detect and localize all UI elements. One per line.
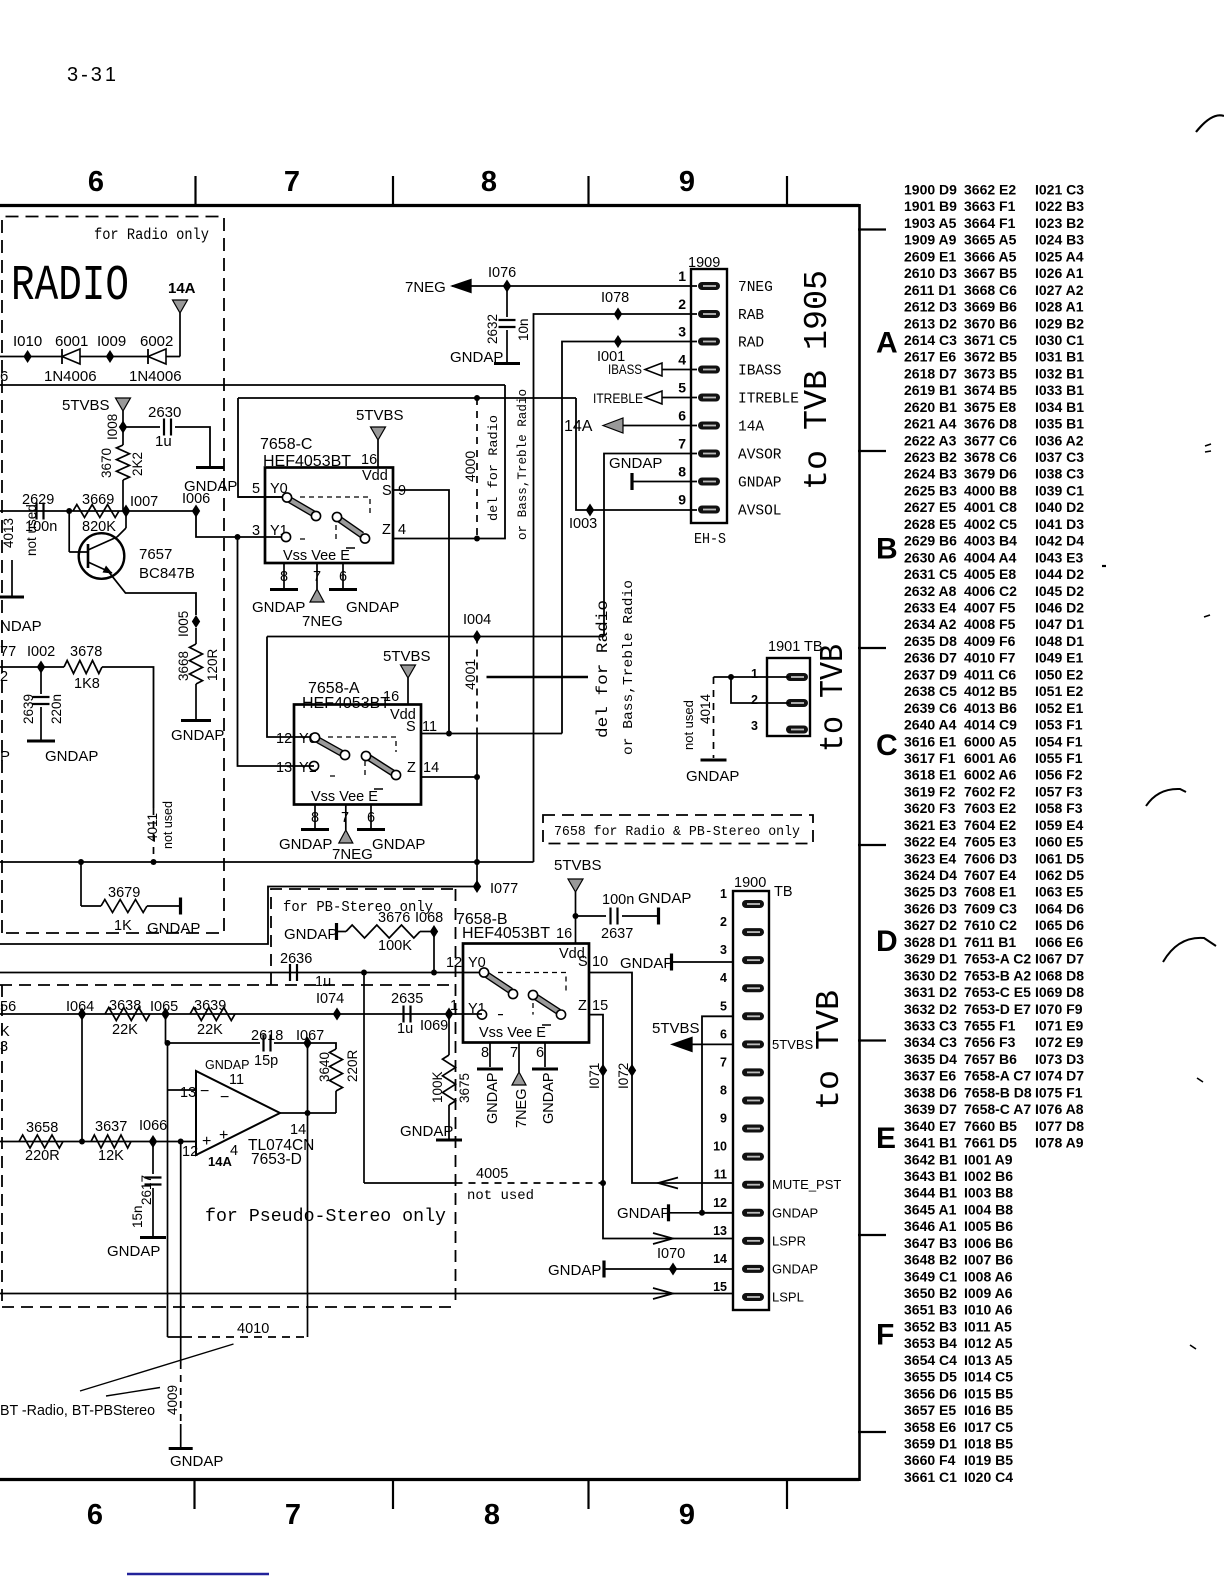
wire long horizontal y=385 bbox=[0, 384, 505, 386]
svg-text:7653-D E7: 7653-D E7 bbox=[964, 1001, 1031, 1017]
svg-text:3643 B1: 3643 B1 bbox=[904, 1168, 957, 1184]
svg-text:GNDAP: GNDAP bbox=[617, 1205, 670, 1222]
svg-text:2618: 2618 bbox=[251, 1028, 283, 1044]
svg-text:6: 6 bbox=[339, 569, 347, 585]
svg-text:1: 1 bbox=[720, 887, 727, 901]
svg-text:7606 D3: 7606 D3 bbox=[964, 850, 1017, 866]
svg-text:3677 C6: 3677 C6 bbox=[964, 432, 1017, 448]
wire S10 to MUTE net bbox=[589, 973, 733, 1184]
svg-text:7656 F3: 7656 F3 bbox=[964, 1034, 1016, 1050]
svg-text:8: 8 bbox=[678, 464, 686, 480]
pin 7 7658-A to 7NEG bbox=[345, 805, 347, 831]
svg-text:I003: I003 bbox=[569, 516, 597, 532]
svg-text:3658: 3658 bbox=[26, 1120, 58, 1136]
top ruler tick 9/end bbox=[786, 176, 788, 205]
svg-text:12: 12 bbox=[276, 731, 292, 747]
svg-text:I010 A6: I010 A6 bbox=[964, 1302, 1013, 1318]
svg-text:7653-D: 7653-D bbox=[251, 1151, 302, 1168]
svg-text:1N4006: 1N4006 bbox=[129, 368, 182, 385]
svg-text:I003 B8: I003 B8 bbox=[964, 1185, 1013, 1201]
svg-text:I072: I072 bbox=[616, 1063, 631, 1089]
svg-text:4014 C9: 4014 C9 bbox=[964, 717, 1017, 733]
wire 5 Y0 7658-C from ITREBLE net bbox=[238, 496, 286, 498]
dashed box for Radio only bbox=[2, 217, 224, 934]
dashed note box 7658 for Radio and PB-Stereo only bbox=[543, 815, 813, 844]
svg-text:7NEG: 7NEG bbox=[405, 279, 446, 296]
svg-text:I065 D6: I065 D6 bbox=[1035, 917, 1084, 933]
svg-text:or Bass,Treble Radio: or Bass,Treble Radio bbox=[515, 389, 530, 540]
svg-text:4003 B4: 4003 B4 bbox=[964, 533, 1017, 549]
svg-text:2634 A2: 2634 A2 bbox=[904, 616, 957, 632]
svg-text:4: 4 bbox=[678, 352, 686, 368]
svg-text:9: 9 bbox=[678, 492, 686, 508]
svg-text:I024 B3: I024 B3 bbox=[1035, 232, 1084, 248]
svg-text:2630: 2630 bbox=[148, 404, 181, 421]
svg-text:12: 12 bbox=[713, 1196, 727, 1210]
svg-text:4004 A4: 4004 A4 bbox=[964, 549, 1017, 565]
svg-text:I031 B1: I031 B1 bbox=[1035, 349, 1084, 365]
svg-text:for PB-Stereo only: for PB-Stereo only bbox=[283, 900, 433, 916]
svg-text:+: + bbox=[202, 1133, 211, 1150]
svg-text:7: 7 bbox=[720, 1055, 727, 1069]
top border ruler line bbox=[0, 204, 859, 207]
svg-text:10n: 10n bbox=[516, 318, 531, 341]
svg-text:GNDAP: GNDAP bbox=[252, 599, 305, 616]
svg-text:12: 12 bbox=[182, 1144, 198, 1160]
svg-text:8: 8 bbox=[311, 810, 319, 826]
wire pin5 1900 to GNDAP bus bbox=[702, 1016, 733, 1213]
svg-text:4013: 4013 bbox=[1, 518, 16, 548]
svg-text:3621 E3: 3621 E3 bbox=[904, 817, 956, 833]
svg-text:AVSOR: AVSOR bbox=[738, 448, 782, 464]
svg-text:I071 E9: I071 E9 bbox=[1035, 1018, 1083, 1034]
svg-text:2632 A8: 2632 A8 bbox=[904, 583, 957, 599]
component location list bbox=[904, 182, 1084, 1485]
svg-text:9: 9 bbox=[679, 166, 695, 198]
component 4011 not used (dashed) bbox=[153, 808, 155, 862]
svg-text:2621 A4: 2621 A4 bbox=[904, 416, 957, 432]
svg-text:I032 B1: I032 B1 bbox=[1035, 365, 1084, 381]
wire emitter to 3668 bbox=[108, 571, 196, 615]
svg-text:4010: 4010 bbox=[237, 1321, 269, 1337]
svg-text:I064 D6: I064 D6 bbox=[1035, 901, 1084, 917]
wire opamp minus input bbox=[168, 1089, 197, 1091]
svg-text:3657 E5: 3657 E5 bbox=[904, 1402, 956, 1418]
node I002 bbox=[37, 661, 45, 674]
junction Z14 on 477 bbox=[474, 774, 480, 780]
resistor 3668 120R bbox=[195, 628, 197, 644]
svg-text:7NEG: 7NEG bbox=[738, 280, 773, 296]
svg-text:4002 C5: 4002 C5 bbox=[964, 516, 1017, 532]
svg-text:2: 2 bbox=[751, 693, 758, 707]
svg-text:14: 14 bbox=[713, 1252, 727, 1266]
wire I006 down to Y1 line bbox=[196, 511, 286, 537]
capacitor 2617 15n to ground bbox=[152, 1142, 154, 1175]
svg-text:3668 C6: 3668 C6 bbox=[964, 282, 1017, 298]
svg-text:I004 B8: I004 B8 bbox=[964, 1201, 1013, 1217]
svg-text:I023 B2: I023 B2 bbox=[1035, 215, 1084, 231]
svg-text:7603 E2: 7603 E2 bbox=[964, 800, 1016, 816]
svg-text:2637: 2637 bbox=[601, 926, 633, 942]
svg-text:S: S bbox=[578, 954, 588, 970]
svg-text:1u: 1u bbox=[315, 974, 331, 990]
svg-text:GNDAP: GNDAP bbox=[400, 1123, 453, 1140]
ground GNDAP 2630 bbox=[196, 466, 224, 469]
svg-text:4007 F5: 4007 F5 bbox=[964, 600, 1016, 616]
svg-text:I042 D4: I042 D4 bbox=[1035, 533, 1084, 549]
svg-text:8: 8 bbox=[720, 1083, 727, 1097]
svg-text:3676 D8: 3676 D8 bbox=[964, 416, 1017, 432]
svg-text:220R: 220R bbox=[25, 1148, 60, 1164]
wire ITREBLE to AVSOL pin9 bbox=[576, 398, 697, 510]
svg-text:12K: 12K bbox=[98, 1148, 124, 1164]
svg-text:2: 2 bbox=[720, 915, 727, 929]
svg-text:GNDAP: GNDAP bbox=[772, 1205, 818, 1220]
svg-text:6000 A5: 6000 A5 bbox=[964, 733, 1017, 749]
svg-text:5TVBS: 5TVBS bbox=[772, 1037, 814, 1052]
svg-text:I049 E1: I049 E1 bbox=[1035, 650, 1083, 666]
svg-text:I059 E4: I059 E4 bbox=[1035, 817, 1083, 833]
svg-text:2: 2 bbox=[678, 296, 686, 312]
svg-text:I055 F1: I055 F1 bbox=[1035, 750, 1083, 766]
svg-text:3642 B1: 3642 B1 bbox=[904, 1151, 957, 1167]
svg-text:2610 D3: 2610 D3 bbox=[904, 265, 957, 281]
svg-text:1900: 1900 bbox=[734, 875, 766, 891]
svg-text:GNDAP: GNDAP bbox=[171, 727, 224, 744]
component 4000 dashed del for Radio bbox=[476, 398, 478, 539]
svg-text:GNDAP: GNDAP bbox=[205, 1058, 249, 1072]
svg-text:I016 B5: I016 B5 bbox=[964, 1402, 1013, 1418]
svg-text:3675: 3675 bbox=[457, 1073, 472, 1103]
wire I067 down to output and 4010 bbox=[307, 1043, 309, 1337]
svg-text:GNDAP: GNDAP bbox=[107, 1243, 160, 1260]
svg-text:7607 E4: 7607 E4 bbox=[964, 867, 1016, 883]
svg-text:I013 A5: I013 A5 bbox=[964, 1352, 1013, 1368]
svg-text:I076: I076 bbox=[488, 265, 516, 281]
svg-text:9: 9 bbox=[398, 483, 406, 499]
scan artifact tick 1 bbox=[1205, 444, 1211, 446]
callout leader line to 4010 bbox=[80, 1344, 234, 1391]
scan artifact dot bbox=[1102, 565, 1106, 567]
svg-text:14A: 14A bbox=[564, 418, 593, 435]
svg-text:56: 56 bbox=[0, 999, 16, 1015]
svg-text:3656 D6: 3656 D6 bbox=[904, 1385, 957, 1401]
ground GNDAP 2632 bbox=[494, 362, 520, 365]
svg-text:GNDAP: GNDAP bbox=[548, 1262, 601, 1279]
svg-text:6001 A6: 6001 A6 bbox=[964, 750, 1017, 766]
svg-text:3649 C1: 3649 C1 bbox=[904, 1268, 957, 1284]
svg-text:1900 D9: 1900 D9 bbox=[904, 182, 957, 198]
svg-text:3630 D2: 3630 D2 bbox=[904, 967, 957, 983]
svg-text:3637: 3637 bbox=[95, 1119, 127, 1135]
svg-text:22K: 22K bbox=[197, 1022, 223, 1038]
resistor 3679 1K bbox=[80, 862, 82, 906]
wire I004 line y=636 to AVSOR bbox=[267, 636, 604, 638]
svg-text:8: 8 bbox=[280, 569, 288, 585]
svg-text:8: 8 bbox=[484, 1499, 500, 1531]
svg-text:3626 D3: 3626 D3 bbox=[904, 901, 957, 917]
wire 1901 pins 1-2 jumper bbox=[714, 676, 732, 678]
svg-text:3640 E7: 3640 E7 bbox=[904, 1118, 956, 1134]
svg-text:I007: I007 bbox=[130, 494, 158, 510]
svg-text:GNDAP: GNDAP bbox=[485, 1072, 501, 1124]
svg-text:RAB: RAB bbox=[738, 308, 764, 324]
svg-text:C: C bbox=[876, 729, 898, 762]
svg-text:15: 15 bbox=[592, 998, 608, 1014]
resistor 3670 2K2 bbox=[122, 427, 124, 445]
svg-text:3639 D7: 3639 D7 bbox=[904, 1101, 957, 1117]
svg-text:I068 D8: I068 D8 bbox=[1035, 967, 1084, 983]
svg-text:4008 F5: 4008 F5 bbox=[964, 616, 1016, 632]
svg-text:I048 D1: I048 D1 bbox=[1035, 633, 1084, 649]
svg-text:GNDAP: GNDAP bbox=[372, 836, 425, 853]
wire 4005 branch vertical bbox=[363, 973, 365, 1184]
svg-text:I074 D7: I074 D7 bbox=[1035, 1068, 1084, 1084]
svg-text:3672 B5: 3672 B5 bbox=[964, 349, 1017, 365]
ground GNDAP 3668 bbox=[181, 719, 211, 722]
svg-text:7: 7 bbox=[341, 810, 349, 826]
svg-text:1u: 1u bbox=[397, 1021, 413, 1037]
svg-text:E: E bbox=[876, 1122, 896, 1155]
svg-text:12: 12 bbox=[446, 955, 462, 971]
svg-text:P: P bbox=[0, 748, 10, 765]
svg-text:I053 F1: I053 F1 bbox=[1035, 717, 1083, 733]
svg-text:4000: 4000 bbox=[462, 451, 478, 482]
svg-text:10: 10 bbox=[592, 954, 608, 970]
svg-text:6: 6 bbox=[0, 368, 8, 385]
svg-text:7605 E3: 7605 E3 bbox=[964, 834, 1016, 850]
svg-text:GNDAP: GNDAP bbox=[170, 1453, 223, 1470]
svg-text:3627 D2: 3627 D2 bbox=[904, 917, 957, 933]
svg-text:I070: I070 bbox=[657, 1246, 685, 1262]
svg-text:3675 E8: 3675 E8 bbox=[964, 399, 1016, 415]
svg-text:A: A bbox=[876, 327, 898, 360]
svg-text:I029 B2: I029 B2 bbox=[1035, 315, 1084, 331]
resistor 3640 220R bbox=[308, 1043, 337, 1049]
svg-text:IBASS: IBASS bbox=[608, 362, 642, 377]
svg-text:to TVB 1905: to TVB 1905 bbox=[799, 270, 836, 490]
svg-text:EH-S: EH-S bbox=[694, 531, 726, 548]
svg-text:6: 6 bbox=[536, 1045, 544, 1061]
svg-text:2613 D2: 2613 D2 bbox=[904, 315, 957, 331]
wire 2630 to ground bbox=[175, 427, 210, 466]
svg-text:14A: 14A bbox=[208, 1154, 232, 1169]
pin 8 7658-B to ground bbox=[489, 1043, 491, 1068]
svg-text:1903 A5: 1903 A5 bbox=[904, 215, 957, 231]
svg-text:5TVBS: 5TVBS bbox=[62, 397, 110, 414]
right frame tick 5 bbox=[858, 1039, 886, 1041]
svg-text:2639 C6: 2639 C6 bbox=[904, 700, 957, 716]
svg-text:Vss Vee E: Vss Vee E bbox=[311, 789, 378, 805]
unknown segment y=677 bbox=[487, 676, 589, 679]
svg-text:13: 13 bbox=[180, 1085, 196, 1101]
svg-text:I004: I004 bbox=[463, 612, 491, 628]
wire Z15 to LSPR bbox=[589, 1015, 733, 1239]
scan artifact tick 2 bbox=[1204, 615, 1210, 617]
svg-text:3667 B5: 3667 B5 bbox=[964, 265, 1017, 281]
wire long horizontal y=862 (RAB net) bbox=[0, 861, 534, 863]
svg-text:3673 B5: 3673 B5 bbox=[964, 365, 1017, 381]
svg-text:3670: 3670 bbox=[99, 448, 114, 478]
right frame tick 7 bbox=[858, 1431, 886, 1433]
bottom border ruler line bbox=[0, 1478, 859, 1481]
svg-text:2619 B1: 2619 B1 bbox=[904, 382, 957, 398]
svg-text:7658 for Radio & PB-Stereo onl: 7658 for Radio & PB-Stereo only bbox=[554, 824, 800, 840]
svg-text:7658-B D8: 7658-B D8 bbox=[964, 1084, 1032, 1100]
svg-text:3655 D5: 3655 D5 bbox=[904, 1369, 957, 1385]
svg-text:4001 C8: 4001 C8 bbox=[964, 499, 1017, 515]
svg-text:I051 E2: I051 E2 bbox=[1035, 683, 1083, 699]
svg-text:2617: 2617 bbox=[139, 1175, 154, 1205]
svg-text:I017 C5: I017 C5 bbox=[964, 1419, 1013, 1435]
svg-text:I036 A2: I036 A2 bbox=[1035, 432, 1084, 448]
switch symbol 7658-B bbox=[498, 973, 566, 1015]
svg-text:I070 F9: I070 F9 bbox=[1035, 1001, 1083, 1017]
bottom ruler tick 6/7 bbox=[193, 1480, 195, 1509]
svg-text:GNDAP: GNDAP bbox=[541, 1072, 557, 1124]
wire S9 7658-C to control net bbox=[393, 490, 449, 734]
svg-text:2618 D7: 2618 D7 bbox=[904, 365, 957, 381]
svg-text:10: 10 bbox=[713, 1140, 727, 1154]
wire antenna to diode row bbox=[179, 313, 181, 357]
svg-text:4009 F6: 4009 F6 bbox=[964, 633, 1016, 649]
svg-text:GNDAP: GNDAP bbox=[638, 890, 691, 907]
right frame tick 1 bbox=[858, 228, 886, 230]
svg-text:4000 B8: 4000 B8 bbox=[964, 483, 1017, 499]
svg-text:I033 B1: I033 B1 bbox=[1035, 382, 1084, 398]
svg-text:I052 E1: I052 E1 bbox=[1035, 700, 1083, 716]
svg-text:I039 C1: I039 C1 bbox=[1035, 483, 1084, 499]
svg-text:3678 C6: 3678 C6 bbox=[964, 449, 1017, 465]
svg-text:7NEG: 7NEG bbox=[332, 846, 373, 863]
wire Y1 7658-A from I006 net bbox=[238, 537, 315, 766]
pin 7 7658-B to 7NEG bbox=[518, 1043, 520, 1073]
svg-text:I020 C4: I020 C4 bbox=[964, 1469, 1013, 1485]
svg-text:3618 E1: 3618 E1 bbox=[904, 767, 956, 783]
wire Y0 7658-A from corner bbox=[267, 637, 314, 738]
component 4010 dashed box bottom bbox=[168, 1336, 185, 1338]
svg-text:7610 C2: 7610 C2 bbox=[964, 917, 1017, 933]
svg-text:Vss Vee E: Vss Vee E bbox=[479, 1025, 546, 1041]
svg-text:I078 A9: I078 A9 bbox=[1035, 1135, 1084, 1151]
svg-text:3679 D6: 3679 D6 bbox=[964, 466, 1017, 482]
svg-text:3623 E4: 3623 E4 bbox=[904, 850, 956, 866]
svg-text:3669: 3669 bbox=[82, 492, 114, 508]
svg-text:I060 E5: I060 E5 bbox=[1035, 834, 1083, 850]
svg-text:14: 14 bbox=[423, 760, 439, 776]
svg-text:1: 1 bbox=[678, 268, 686, 284]
svg-text:3650 B2: 3650 B2 bbox=[904, 1285, 957, 1301]
svg-text:7661 D5: 7661 D5 bbox=[964, 1135, 1017, 1151]
junction 4000 bottom bbox=[474, 536, 480, 542]
wire RAD from pin3 bbox=[562, 342, 697, 734]
svg-text:3670 B6: 3670 B6 bbox=[964, 315, 1017, 331]
svg-text:1909 A9: 1909 A9 bbox=[904, 232, 957, 248]
svg-text:3648 B2: 3648 B2 bbox=[904, 1252, 957, 1268]
svg-text:S: S bbox=[406, 719, 416, 735]
svg-text:7602 F2: 7602 F2 bbox=[964, 783, 1016, 799]
svg-text:3624 D4: 3624 D4 bbox=[904, 867, 957, 883]
svg-text:9: 9 bbox=[720, 1112, 727, 1126]
arrow on MUTE_PST line bbox=[658, 1178, 678, 1189]
svg-text:or Bass,Treble Radio: or Bass,Treble Radio bbox=[621, 580, 637, 755]
component 4009 dashed to ground bbox=[180, 1362, 182, 1424]
svg-text:Vdd: Vdd bbox=[362, 468, 388, 484]
svg-text:7609 C3: 7609 C3 bbox=[964, 901, 1017, 917]
svg-text:3669 B6: 3669 B6 bbox=[964, 299, 1017, 315]
wire 3678 row bbox=[0, 666, 64, 668]
svg-text:I011 A5: I011 A5 bbox=[964, 1319, 1012, 1335]
svg-text:3633 C3: 3633 C3 bbox=[904, 1018, 957, 1034]
svg-text:14A: 14A bbox=[168, 280, 196, 297]
svg-text:I058 F3: I058 F3 bbox=[1035, 800, 1083, 816]
svg-text:I028 A1: I028 A1 bbox=[1035, 299, 1084, 315]
svg-text:I056 F2: I056 F2 bbox=[1035, 767, 1083, 783]
wire opamp plus input row y=1141.5 bbox=[0, 1141, 196, 1143]
svg-text:for Pseudo-Stereo only: for Pseudo-Stereo only bbox=[205, 1207, 446, 1227]
svg-text:I041 D3: I041 D3 bbox=[1035, 516, 1084, 532]
svg-text:2611 D1: 2611 D1 bbox=[904, 282, 956, 298]
svg-text:I057 F3: I057 F3 bbox=[1035, 783, 1083, 799]
svg-text:3634 C3: 3634 C3 bbox=[904, 1034, 957, 1050]
svg-text:15: 15 bbox=[713, 1280, 727, 1294]
junction S9 on control line bbox=[446, 731, 452, 737]
svg-text:I071: I071 bbox=[587, 1063, 602, 1089]
svg-text:3652 B3: 3652 B3 bbox=[904, 1319, 957, 1335]
svg-text:I022 B3: I022 B3 bbox=[1035, 198, 1084, 214]
svg-text:I078: I078 bbox=[601, 290, 629, 306]
svg-text:7611 B1: 7611 B1 bbox=[964, 934, 1016, 950]
svg-text:I009 A6: I009 A6 bbox=[964, 1285, 1013, 1301]
svg-text:I043 E3: I043 E3 bbox=[1035, 549, 1083, 565]
svg-text:GNDAP: GNDAP bbox=[738, 476, 782, 492]
svg-text:15n: 15n bbox=[130, 1205, 145, 1228]
svg-text:7608 E1: 7608 E1 bbox=[964, 884, 1016, 900]
dashed box for PB-Stereo only bbox=[271, 889, 453, 985]
svg-text:2627 E5: 2627 E5 bbox=[904, 499, 956, 515]
svg-text:2631 C5: 2631 C5 bbox=[904, 566, 957, 582]
top ruler tick 8/9 bbox=[587, 176, 589, 205]
svg-text:F: F bbox=[876, 1319, 894, 1352]
wire Y1 line 7658-B y=1014 bbox=[0, 1013, 482, 1015]
svg-text:3640: 3640 bbox=[317, 1052, 332, 1082]
svg-text:4012 B5: 4012 B5 bbox=[964, 683, 1017, 699]
svg-text:3644 B1: 3644 B1 bbox=[904, 1185, 957, 1201]
svg-text:6: 6 bbox=[367, 810, 375, 826]
wire input row y=511 bbox=[0, 510, 126, 512]
svg-text:GNDAP: GNDAP bbox=[284, 926, 337, 943]
svg-text:120R: 120R bbox=[205, 648, 220, 681]
wire control S line y=733.5 bbox=[421, 733, 562, 735]
svg-text:1K8: 1K8 bbox=[74, 676, 100, 692]
svg-text:I002 B6: I002 B6 bbox=[964, 1168, 1013, 1184]
svg-text:I062 D5: I062 D5 bbox=[1035, 867, 1084, 883]
svg-text:3631 D2: 3631 D2 bbox=[904, 984, 957, 1000]
opamp TL074CN 7653-D bbox=[196, 1071, 280, 1155]
svg-text:1K: 1K bbox=[114, 918, 132, 934]
svg-text:3663 F1: 3663 F1 bbox=[964, 198, 1016, 214]
svg-text:I047 D1: I047 D1 bbox=[1035, 616, 1084, 632]
svg-text:B: B bbox=[876, 533, 898, 566]
svg-text:I044 D2: I044 D2 bbox=[1035, 566, 1084, 582]
svg-text:MUTE_PST: MUTE_PST bbox=[772, 1177, 841, 1192]
wire 3678 to corner down bbox=[102, 667, 154, 808]
svg-text:7658-C: 7658-C bbox=[260, 436, 312, 453]
junction 4011 bbox=[151, 859, 157, 865]
svg-text:I077: I077 bbox=[490, 881, 518, 897]
svg-text:3635 D4: 3635 D4 bbox=[904, 1051, 957, 1067]
bottom ruler tick 7/8 bbox=[392, 1480, 394, 1509]
